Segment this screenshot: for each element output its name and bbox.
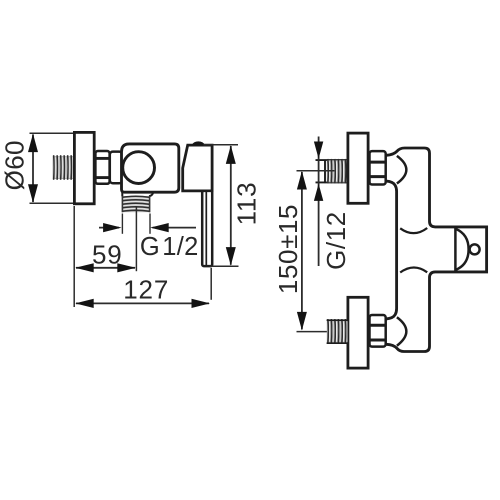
svg-text:Ø60: Ø60 <box>0 140 30 190</box>
svg-text:150±15: 150±15 <box>273 204 303 294</box>
outlet thread right edge <box>149 196 151 212</box>
arrowhead O60 up <box>28 134 38 153</box>
extension line 113 bottom <box>210 265 239 267</box>
outlet centerline <box>135 207 137 271</box>
center ext line bottom <box>297 331 335 333</box>
bottom union nut <box>370 315 386 347</box>
arrowhead 150 up <box>297 171 307 190</box>
arrowhead 113 up <box>226 145 236 164</box>
lever screw circle <box>470 244 480 254</box>
outlet thread (G1/2) <box>123 196 150 212</box>
bottom nut facet lower <box>370 339 386 342</box>
body outline <box>386 148 486 352</box>
valve body <box>122 144 179 192</box>
arrowhead 127 right <box>192 299 211 308</box>
dimension line 127 <box>76 302 209 304</box>
dimension G1/2 right arrow <box>153 227 197 229</box>
extension line 113 top <box>204 144 239 146</box>
extension line G1/2 left <box>121 214 123 234</box>
dimension line 150+-15 <box>301 172 303 329</box>
extension line left (flange) <box>73 206 75 307</box>
nut facet line lower <box>95 176 109 179</box>
eccentric arc bottom <box>397 317 406 345</box>
extension line right (lever) <box>210 268 212 300</box>
handle base plate line <box>454 227 457 272</box>
handle wedge <box>183 145 212 191</box>
bottom wall flange <box>348 297 368 368</box>
svg-text:G1/2: G1/2 <box>140 233 199 261</box>
dimension line O60 <box>32 135 34 203</box>
bottom pipe thread top edge <box>327 319 348 321</box>
top union nut <box>370 151 386 184</box>
top pipe upper edge <box>316 159 348 161</box>
arrowhead 113 down <box>226 247 236 266</box>
wall pipe thread (left inlet) <box>53 156 74 179</box>
svg-text:113: 113 <box>232 182 262 226</box>
extension line bottom (O60 lower) <box>30 202 76 204</box>
extension line top (O60 upper) <box>30 132 76 134</box>
top pipe thread <box>327 160 348 182</box>
arrowhead up to pipe bottom <box>314 184 323 201</box>
union nut <box>95 151 109 184</box>
bottom nut facet upper <box>370 324 386 327</box>
handle cap dome <box>192 141 205 145</box>
thread dia leader line <box>318 137 320 267</box>
arrowhead 150 down <box>297 312 307 331</box>
dimension line 59 <box>76 267 135 269</box>
top nut facet upper <box>370 161 386 164</box>
body left edge <box>386 181 396 319</box>
eccentric arc top <box>397 156 406 184</box>
svg-text:127: 127 <box>123 275 169 305</box>
wall flange (escutcheon) <box>74 132 94 203</box>
top pipe lower edge <box>316 181 348 183</box>
dimension G1/2 left arrow <box>99 227 119 229</box>
arrowhead down to pipe top <box>314 142 323 159</box>
lever inner line <box>205 192 207 265</box>
arrowhead 59 right <box>117 263 136 272</box>
waist contour bottom <box>400 267 427 272</box>
dimension line 113 <box>230 146 232 265</box>
outlet thread left edge <box>121 196 123 212</box>
top wall flange <box>348 133 368 203</box>
nut facet line upper <box>95 157 109 160</box>
svg-text:G/12: G/12 <box>321 211 351 270</box>
arrowhead 127 left <box>75 299 94 308</box>
connector sleeve <box>110 152 122 184</box>
bottom pipe thread <box>327 320 348 342</box>
top nut facet lower <box>370 175 386 178</box>
outlet collar <box>121 192 123 197</box>
top pipe end cap <box>324 160 326 184</box>
cartridge dome circle <box>123 152 155 184</box>
arrowhead O60 down <box>28 184 38 203</box>
bottom pipe thread bottom edge <box>327 342 348 344</box>
center ext line top <box>297 170 335 172</box>
arrowhead 59 left <box>75 263 94 272</box>
extension line G1/2 right <box>149 214 151 234</box>
lever bar <box>202 191 212 266</box>
waist contour top <box>400 228 427 233</box>
lever end arc <box>456 229 469 270</box>
